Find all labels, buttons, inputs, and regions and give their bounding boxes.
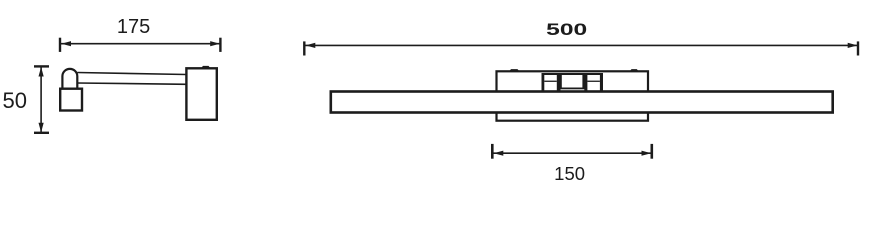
svg-text:500: 500 [546,21,587,39]
dimension 175 arrowheads [61,41,220,46]
dimension 500 extension ticks [304,41,858,55]
dimension 150 extension ticks [492,144,652,159]
front view: dimension 500 line [305,44,858,46]
dimension 50 extension ticks [34,66,49,132]
dimension 175 extension ticks [60,38,220,52]
terminal block right screw slot [587,81,600,82]
side view: dimension 50 line [40,67,42,132]
terminal block bottom strip [561,89,585,90]
front view: dimension 150 line [493,152,651,154]
dimension 50 arrowheads [39,67,44,132]
svg-text:50: 50 [3,88,27,113]
wall mounting plate (front view) [497,71,649,120]
arm bottom line (side view) [77,83,186,84]
arm top line (side view) [77,73,186,75]
right screw head bump on plate [630,69,639,71]
terminal block center cell [562,75,583,88]
svg-text:175: 175 [117,16,150,38]
mount screw head bump (side view) [201,66,211,69]
dimension 500 arrowheads [306,43,858,48]
lamp bar (front view) [331,92,833,113]
terminal block right cell [587,75,600,91]
left screw head bump on plate [509,69,520,71]
wall mount plate (side view) [186,68,216,120]
svg-text:150: 150 [554,163,585,184]
terminal block left cell [544,75,557,91]
dimension 150 arrowheads [494,151,652,156]
lamp head pivot arch (side view) [62,69,77,90]
terminal block body (front view) [542,73,604,93]
terminal block left screw slot [544,81,557,82]
side view: dimension 175 line [61,43,220,45]
lamp bar cross-section square (side view) [60,89,82,111]
